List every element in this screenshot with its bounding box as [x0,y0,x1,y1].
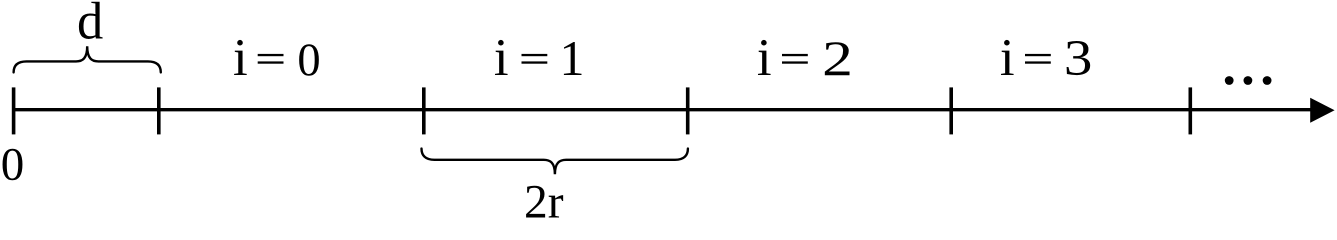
tick 1 [157,87,161,134]
label i = 0 [233,29,321,87]
tick 0 [12,87,16,134]
svg-text:d: d [77,0,103,51]
svg-text:i: i [494,29,509,87]
svg-text:i: i [1000,29,1015,87]
svg-text:2: 2 [822,30,853,86]
label i = 3 [1000,29,1093,87]
svg-text:0: 0 [297,35,320,86]
svg-text:3: 3 [1064,30,1093,86]
ellipsis dot 2 [1244,76,1253,85]
overbrace for d [14,46,161,72]
axis line [14,108,1316,111]
svg-text:0: 0 [1,138,25,190]
svg-text:i: i [233,29,248,87]
label i = 1 [494,29,585,87]
underbrace for 2r [422,149,688,175]
tick 3 [686,87,690,134]
svg-text:2r: 2r [524,177,564,221]
tick 5 [1189,87,1193,134]
arrowhead [1310,98,1334,123]
ellipsis dot 3 [1263,76,1272,85]
tick 2 [422,87,426,134]
tick 4 [949,87,953,134]
label i = 2 [757,29,853,87]
svg-text:i: i [757,29,772,87]
ellipsis dot 1 [1225,76,1234,85]
svg-text:1: 1 [560,30,585,86]
